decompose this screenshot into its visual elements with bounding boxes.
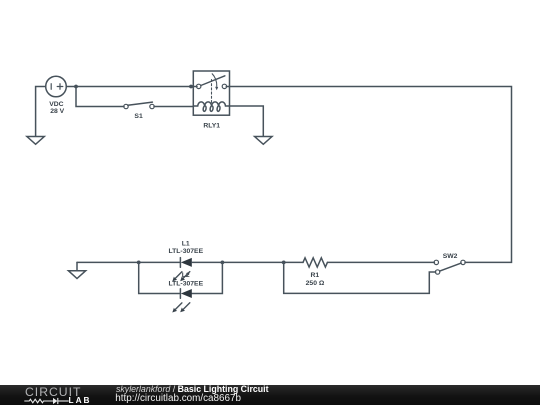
svg-text:250 Ω: 250 Ω: [306, 280, 325, 287]
wire relay contact to right rail down to SW2: [226, 87, 511, 263]
ground GND1 (below V1): [27, 137, 44, 145]
svg-text:RLY1: RLY1: [203, 122, 220, 129]
svg-text:28 V: 28 V: [50, 108, 64, 115]
switch S1 lever: [128, 102, 153, 105]
relay RLY1 actuation dashed line: [211, 80, 213, 104]
LED L1 cathode bar: [179, 258, 181, 268]
svg-text:L1: L1: [182, 241, 190, 248]
svg-text:SW2: SW2: [443, 253, 458, 260]
V1 plus terminal mark: [57, 84, 63, 90]
node junction before relay: [189, 85, 193, 89]
LED L1 emission arrows: [174, 272, 182, 280]
node junction left of LED pair: [137, 261, 141, 265]
switch SW2 terminals: [434, 260, 438, 264]
switch SW2 lever: [440, 263, 462, 271]
svg-text:R1: R1: [310, 272, 319, 279]
wire LED L1 anode to resistor: [192, 261, 303, 263]
svg-text:LTL-307EE: LTL-307EE: [168, 248, 203, 255]
relay RLY1 actuation arrow: [212, 74, 217, 87]
LED L2 triangle: [181, 289, 192, 298]
node junction at V1 output: [74, 85, 78, 89]
wire ground to LED L1 cathode: [77, 261, 180, 263]
ground GND2 (right of relay): [255, 137, 272, 145]
wire from V1 negative terminal to ground: [36, 87, 46, 137]
footer url: [115, 393, 241, 404]
relay RLY1 body: [193, 71, 229, 115]
relay RLY1 coil: [193, 102, 229, 106]
wire S1 to relay coil: [154, 106, 193, 108]
ground GND3 (bottom left): [76, 262, 78, 270]
LED L2 cathode bar: [179, 289, 181, 299]
LED L1 triangle: [181, 258, 192, 267]
wire bottom branch to SW2 throw 2: [284, 262, 436, 293]
logo resistor and diode glyph: [22, 396, 72, 405]
svg-text:VDC: VDC: [49, 101, 63, 108]
node junction at bottom branch split: [282, 261, 286, 265]
footer bar: [0, 385, 540, 405]
wire R1 to SW2 throw 1: [327, 261, 434, 263]
LED L2 emission arrows: [174, 303, 182, 311]
resistor R1 zigzag: [303, 258, 327, 267]
V1 minus terminal mark: [50, 84, 52, 90]
relay RLY1 switch lever: [201, 76, 225, 86]
node junction right of LED pair: [221, 261, 225, 265]
relay RLY1 contact terminals: [197, 84, 201, 88]
voltage source V1 circle: [46, 76, 67, 97]
svg-text:L2: L2: [182, 272, 190, 279]
wire from junction down to S1: [76, 87, 124, 107]
wire V1 positive to relay common: [66, 86, 197, 88]
wire down to second LED branch (left): [139, 262, 181, 293]
footer byline: [116, 384, 269, 394]
wire second LED branch (right): [192, 262, 223, 293]
CircuitLab logo wordmark CIRCUIT: [25, 385, 81, 399]
wire relay coil to ground: [230, 106, 264, 136]
switch S1 terminals: [124, 104, 128, 108]
svg-text:LTL-307EE: LTL-307EE: [168, 280, 203, 287]
svg-text:S1: S1: [134, 113, 143, 120]
CircuitLab logo wordmark LAB: [69, 395, 92, 405]
